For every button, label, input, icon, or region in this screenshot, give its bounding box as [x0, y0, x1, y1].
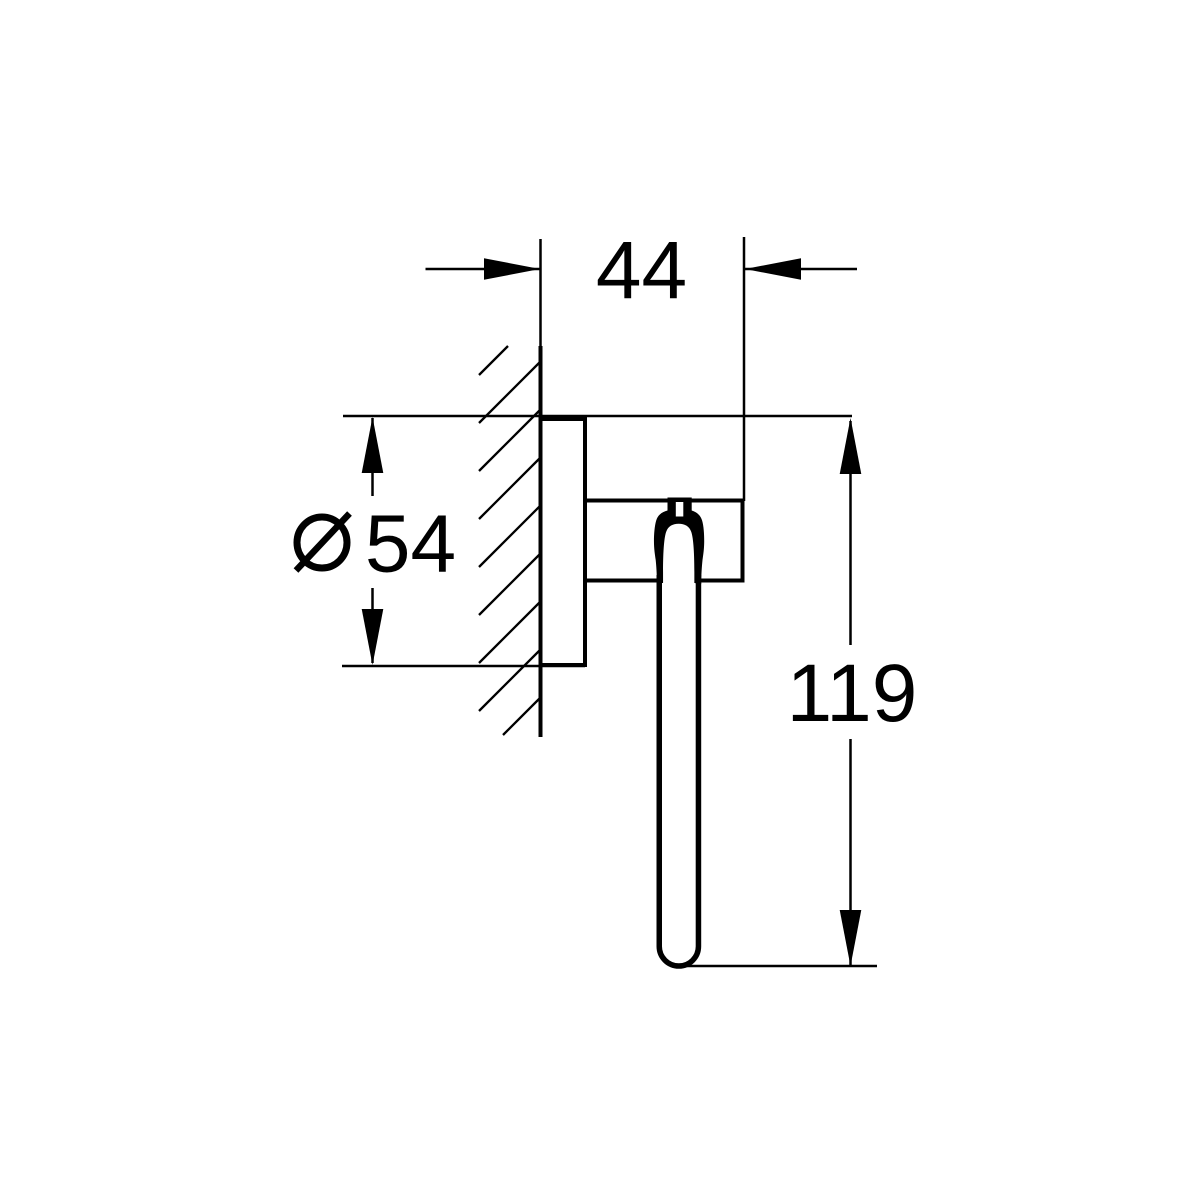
wire: top extension line (shared by Ø54 and 119 dimensions): [343, 415, 852, 418]
escutcheon (wall plate, side view): [541, 419, 586, 665]
svg-text:119: 119: [787, 648, 918, 739]
label diameter symbol of Ø 54: [296, 514, 350, 571]
wall hatching: [479, 346, 541, 735]
wire: 119 bottom extension line: [686, 965, 877, 968]
wall edge line: [539, 346, 543, 737]
arrowhead Ø54 down: [362, 609, 384, 665]
svg-text:54: 54: [365, 499, 456, 590]
Ø54 dimension line: [371, 418, 374, 496]
arrowhead 44 left: [484, 258, 540, 280]
ball joint interior (white): [663, 524, 694, 584]
arm (holder body, side view): [585, 501, 743, 581]
ball joint with pin, black silhouette: [654, 498, 704, 585]
roll holder loop interior: [662, 583, 696, 963]
44 dimension line, left part: [426, 268, 541, 271]
arrowhead 119 up: [840, 418, 862, 474]
wire: Ø54 bottom extension line: [342, 665, 585, 668]
arrowhead 119 down: [840, 910, 862, 966]
wire: left extension line above wall (44 dimension): [539, 239, 542, 348]
roll holder loop outline: [659, 575, 698, 966]
wire: right extension line (44 dimension): [743, 237, 746, 501]
svg-text:44: 44: [596, 225, 687, 316]
119 dimension line: [849, 421, 852, 645]
arrowhead 44 right: [745, 258, 801, 280]
44 dimension line, right part: [745, 268, 857, 271]
arrowhead Ø54 up: [362, 417, 384, 473]
pin slot (white): [676, 502, 684, 517]
